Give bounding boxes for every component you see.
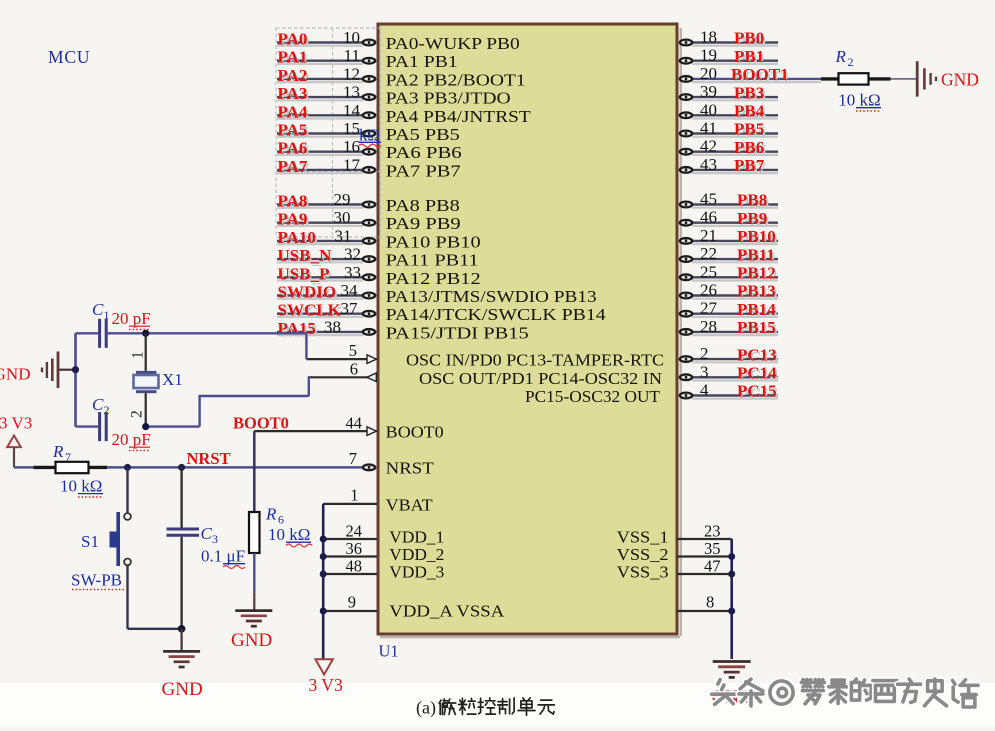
svg-text:22: 22 [700, 244, 717, 263]
svg-text:PB10: PB10 [737, 227, 776, 246]
pin 35 VSS_2 [677, 539, 732, 558]
pin 23 VSS_1 [677, 522, 732, 541]
pin 43 net PB7 (right) [679, 155, 778, 178]
wire C1 right lead to junction [106, 332, 146, 334]
wire BOOT0 net vertical [253, 431, 256, 512]
label C1 [92, 300, 110, 322]
ground symbol GND left of crystal [42, 352, 74, 389]
svg-text:17: 17 [343, 155, 361, 174]
svg-text:VBAT: VBAT [386, 496, 433, 515]
pin 8 VSSA [677, 593, 732, 612]
pin 32 net USB_N (left) [277, 245, 376, 268]
wire: left vertical connecting C1/C2 with GND tap [74, 333, 77, 426]
svg-text:38: 38 [324, 317, 341, 336]
junction node OSC_IN (C1/X1/pin5) [142, 330, 149, 337]
svg-text:VSS_1: VSS_1 [617, 528, 669, 547]
svg-text:2: 2 [129, 410, 146, 418]
svg-text:PA13/JTMS/SWDIO PB13: PA13/JTMS/SWDIO PB13 [386, 287, 597, 306]
VSS bus vertical wire to ground [728, 539, 735, 659]
pin 16 net PA6 (left) [277, 137, 376, 160]
label R6 [265, 505, 284, 527]
svg-text:12: 12 [343, 64, 360, 83]
pin 27 net PB14 (right) [679, 299, 778, 322]
stray value label kO near pin 16 [359, 126, 381, 148]
svg-text:PB11: PB11 [737, 245, 775, 264]
pin 22 net PB11 (right) [679, 244, 778, 267]
selection marquee dashed box [276, 28, 381, 237]
svg-text:PA2 PB2/BOOT1: PA2 PB2/BOOT1 [386, 70, 526, 89]
svg-text:2: 2 [700, 344, 709, 363]
resistor R2 [821, 73, 891, 84]
svg-text:14: 14 [343, 101, 361, 120]
watermark toutiao @ menglu de xifang shihua [712, 680, 737, 705]
pin 26 net PB13 (right) [679, 281, 778, 304]
pin 24 VDD row [320, 522, 377, 543]
pin 28 net PB15 (right) [679, 317, 778, 340]
svg-text:NRST: NRST [386, 459, 434, 478]
crystal X1 [134, 333, 159, 426]
svg-text:PA2: PA2 [278, 66, 308, 85]
svg-text:C: C [201, 524, 213, 543]
pin 21 net PB10 (right) [679, 226, 778, 249]
svg-text:PA6 PB6: PA6 PB6 [386, 143, 462, 162]
wire junction to ground [180, 629, 182, 651]
svg-text:PA5 PB5: PA5 PB5 [386, 125, 460, 144]
resistor R7 [34, 462, 108, 473]
svg-text:VDD_1: VDD_1 [389, 528, 444, 547]
svg-text:PB3: PB3 [734, 83, 764, 102]
svg-text:0.1 μF: 0.1 μF [201, 547, 245, 566]
svg-text:44: 44 [346, 414, 363, 433]
wire OSC_OUT net: pin 6 to C2/X1 junction [145, 376, 309, 426]
svg-text:PA7 PB7: PA7 PB7 [386, 161, 461, 180]
svg-text:C: C [92, 395, 104, 414]
svg-text:PB1: PB1 [734, 47, 764, 66]
svg-text:PA4 PB4/JNTRST: PA4 PB4/JNTRST [386, 107, 531, 126]
svg-text:GND: GND [231, 630, 272, 651]
wire C2 left lead [76, 425, 99, 427]
svg-text:26: 26 [700, 281, 717, 300]
pin 3 net PC14 (right) [679, 362, 779, 385]
svg-text:VSS_3: VSS_3 [617, 563, 669, 582]
ground symbol GND below VSS bus [713, 662, 751, 678]
svg-text:20: 20 [700, 64, 717, 83]
svg-text:PA9 PB9: PA9 PB9 [386, 214, 461, 233]
svg-text:41: 41 [700, 119, 717, 138]
svg-text:SWDIO: SWDIO [278, 283, 337, 302]
svg-text:39: 39 [700, 82, 717, 101]
svg-text:PA9: PA9 [278, 210, 308, 229]
svg-text:BOOT0: BOOT0 [386, 423, 444, 442]
value 10 kO (R2) [838, 91, 881, 112]
svg-text:4: 4 [700, 381, 709, 400]
junction NRST/C3 [178, 464, 185, 471]
resistor R6 [249, 512, 260, 593]
svg-text:20 pF: 20 pF [112, 430, 151, 449]
pin 44 BOOT0 with input arrow [254, 414, 376, 436]
svg-text:30: 30 [334, 208, 351, 227]
svg-text:PA10: PA10 [278, 228, 316, 247]
svg-text:U1: U1 [379, 642, 399, 661]
svg-text:19: 19 [700, 46, 717, 65]
svg-text:PB7: PB7 [734, 156, 765, 175]
pin 5 OSC_IN with input arrow [306, 341, 376, 363]
label R7 [52, 442, 71, 464]
svg-text:S1: S1 [81, 532, 99, 551]
svg-text:VDD_2: VDD_2 [389, 545, 444, 564]
pin 19 net PB1 (right) [679, 46, 778, 69]
svg-text:PA11 PB11: PA11 PB11 [386, 251, 479, 270]
svg-text:PA7: PA7 [278, 157, 308, 176]
svg-text:SW-PB: SW-PB [71, 570, 122, 589]
label C2 [92, 395, 110, 417]
svg-text:3 V3: 3 V3 [309, 675, 343, 695]
svg-text:PA15/JTDI PB15: PA15/JTDI PB15 [386, 323, 529, 342]
capacitor C1 [100, 319, 107, 348]
svg-text:3: 3 [212, 532, 218, 546]
svg-text:NRST: NRST [187, 449, 231, 468]
svg-text:PC15-OSC32 OUT: PC15-OSC32 OUT [525, 387, 660, 406]
ground symbol GND (R6) [235, 611, 272, 627]
pin 9 VDD row [320, 593, 377, 615]
svg-text:37: 37 [341, 299, 359, 318]
svg-text:X1: X1 [162, 370, 183, 389]
svg-text:OSC OUT/PD1 PC14-OSC32 IN: OSC OUT/PD1 PC14-OSC32 IN [419, 369, 662, 388]
svg-text:PB8: PB8 [737, 191, 767, 210]
pin 38 net PA15 (left) [277, 317, 376, 340]
svg-text:OSC IN/PD0 PC13-TAMPER-RTC: OSC IN/PD0 PC13-TAMPER-RTC [406, 351, 664, 370]
svg-text:PA3: PA3 [278, 84, 308, 103]
capacitor C2 [100, 412, 107, 441]
svg-text:45: 45 [700, 190, 717, 209]
svg-text:VSS_2: VSS_2 [617, 545, 669, 564]
svg-text:9: 9 [348, 593, 356, 612]
svg-text:35: 35 [704, 539, 721, 558]
pin 1 VBAT [323, 486, 377, 505]
svg-text:1: 1 [130, 351, 147, 359]
svg-text:PC13: PC13 [737, 345, 777, 364]
svg-text:BOOT0: BOOT0 [233, 414, 289, 433]
svg-text:PA0-WUKP PB0: PA0-WUKP PB0 [386, 34, 520, 53]
svg-text:PB5: PB5 [734, 120, 764, 139]
svg-text:32: 32 [344, 245, 361, 264]
svg-text:42: 42 [700, 137, 717, 156]
power symbol 3V3 bottom (triangle down) [309, 659, 343, 695]
svg-text:2: 2 [848, 55, 854, 69]
pin 20 net BOOT1 (right) [679, 64, 821, 87]
svg-text:8: 8 [706, 593, 714, 612]
svg-text:PA14/JTCK/SWCLK PB14: PA14/JTCK/SWCLK PB14 [386, 305, 606, 324]
svg-text:VDD_3: VDD_3 [389, 563, 444, 582]
pin 40 net PB4 (right) [679, 100, 778, 123]
wire C1 left lead [76, 332, 99, 334]
svg-text:GND: GND [941, 70, 979, 90]
pin 42 net PB6 (right) [679, 137, 778, 160]
svg-text:PA3 PB3/JTDO: PA3 PB3/JTDO [386, 89, 511, 108]
pin 15 net PA5 (left) [277, 119, 376, 142]
junction GND/C1/C2 [72, 366, 79, 373]
svg-text:15: 15 [343, 119, 360, 138]
svg-text:7: 7 [65, 450, 71, 464]
VDD bus vertical wire (3V3) [322, 504, 325, 660]
ground symbol GND (S1/C3) [163, 651, 200, 667]
svg-text:11: 11 [344, 46, 360, 65]
svg-text:20 pF: 20 pF [112, 309, 151, 328]
junction S1/C3/GND [178, 625, 186, 633]
junction NRST/S1 [124, 464, 131, 471]
svg-text:PA1 PB1: PA1 PB1 [386, 52, 458, 71]
wire S1 bottom to junction [128, 628, 182, 630]
svg-text:16: 16 [343, 137, 360, 156]
type SW-PB [71, 570, 124, 589]
pin 47 VSS_3 [677, 557, 732, 576]
pin 45 net PB8 (right) [679, 190, 778, 213]
switch S1 (SW-PB) [110, 467, 131, 628]
svg-text:R: R [835, 47, 847, 66]
value 20 pF (C2) [112, 430, 151, 451]
pin 7 NRST [349, 449, 377, 471]
svg-text:GND: GND [0, 365, 31, 384]
svg-text:PB4: PB4 [734, 102, 765, 121]
pin 33 net USB_P (left) [277, 263, 376, 286]
svg-text:10 kΩ: 10 kΩ [60, 477, 102, 496]
pin 41 net PB5 (right) [679, 119, 778, 142]
svg-text:PA5: PA5 [278, 121, 308, 140]
svg-text:PC14: PC14 [737, 364, 777, 383]
junction node OSC_OUT (C2/X1/pin6) [142, 423, 149, 430]
pin 37 net SWCLK (left) [277, 299, 376, 322]
value 0.1 uF (C3) [201, 547, 245, 569]
wire NRST net [14, 466, 362, 469]
svg-text:2: 2 [104, 403, 110, 417]
pin 34 net SWDIO (left) [277, 281, 376, 304]
pin 6 OSC_OUT with output arrow [309, 360, 377, 382]
pin 2 net PC13 (right) [679, 344, 779, 367]
pin 31 net PA10 (left) [277, 226, 376, 249]
pin 29 net PA8 (left) [277, 190, 376, 213]
svg-text:USB_N: USB_N [278, 246, 333, 265]
svg-text:PA4: PA4 [278, 102, 308, 121]
svg-text:1: 1 [104, 308, 110, 322]
pin 13 net PA3 (left) [277, 83, 376, 106]
svg-text:10 kΩ: 10 kΩ [838, 91, 880, 110]
svg-text:PB12: PB12 [737, 264, 776, 283]
svg-text:PB13: PB13 [737, 282, 776, 301]
svg-text:(a): (a) [416, 698, 436, 719]
svg-text:3 V3: 3 V3 [0, 414, 32, 433]
svg-text:PA0: PA0 [278, 30, 308, 49]
svg-text:47: 47 [704, 557, 721, 576]
value 10 kO (R6) [268, 525, 312, 547]
svg-text:PC15: PC15 [737, 382, 777, 401]
svg-text:PB6: PB6 [734, 138, 764, 157]
svg-text:PB9: PB9 [737, 209, 767, 228]
svg-text:PB0: PB0 [734, 29, 764, 48]
pin 48 VDD row [320, 557, 377, 578]
svg-text:31: 31 [335, 226, 352, 245]
svg-text:23: 23 [704, 522, 721, 541]
svg-text:29: 29 [334, 190, 351, 209]
svg-text:25: 25 [700, 262, 717, 281]
svg-text:28: 28 [700, 317, 717, 336]
svg-text:1: 1 [350, 486, 358, 505]
pin 10 net PA0 (left) [277, 28, 376, 51]
svg-text:PA6: PA6 [278, 139, 308, 158]
label C3 [201, 524, 219, 546]
svg-text:BOOT1: BOOT1 [731, 65, 789, 84]
svg-text:7: 7 [349, 449, 357, 468]
svg-text:MCU: MCU [48, 47, 90, 67]
value 10 kO (R7) [60, 477, 103, 498]
svg-text:R: R [265, 505, 277, 524]
wire OSC_IN net: C1/X1 junction to pin 5 [146, 332, 307, 359]
pin 18 net PB0 (right) [679, 28, 778, 51]
wire R2 to GND [891, 78, 918, 80]
svg-text:10: 10 [343, 28, 360, 47]
power symbol 3V3 left (triangle up) [7, 436, 21, 468]
svg-text:VDD_A VSSA: VDD_A VSSA [389, 602, 504, 621]
svg-text:USB_P: USB_P [278, 264, 330, 283]
svg-text:33: 33 [344, 263, 361, 282]
svg-text:40: 40 [700, 100, 717, 119]
svg-text:43: 43 [700, 155, 717, 174]
pin 36 VDD row [320, 539, 377, 560]
svg-text:13: 13 [343, 83, 360, 102]
pin 25 net PB12 (right) [679, 262, 778, 285]
svg-text:PB15: PB15 [737, 318, 776, 337]
svg-text:PA8: PA8 [278, 192, 308, 211]
svg-text:10 kΩ: 10 kΩ [268, 525, 310, 544]
svg-text:6: 6 [350, 360, 358, 379]
svg-text:36: 36 [346, 539, 363, 558]
svg-text:R: R [52, 442, 64, 461]
pin 12 net PA2 (left) [277, 64, 376, 87]
svg-text:18: 18 [700, 28, 717, 47]
pin 46 net PB9 (right) [679, 208, 778, 231]
ground symbol GND (R2, rotated) [917, 61, 936, 96]
svg-text:PA8 PB8: PA8 PB8 [386, 196, 460, 215]
pin 17 net PA7 (left) [277, 155, 376, 178]
svg-text:5: 5 [349, 341, 357, 360]
svg-text:PB14: PB14 [737, 300, 776, 319]
svg-text:24: 24 [346, 522, 363, 541]
pin 39 net PB3 (right) [679, 82, 778, 105]
svg-text:3: 3 [700, 362, 709, 381]
svg-text:PA15: PA15 [278, 319, 316, 338]
IC U1 MCU body [378, 24, 677, 634]
pin 14 net PA4 (left) [277, 101, 376, 124]
capacitor C3 [167, 467, 200, 628]
svg-text:27: 27 [700, 299, 718, 318]
svg-text:PA12 PB12: PA12 PB12 [386, 269, 481, 288]
pin 30 net PA9 (left) [277, 208, 376, 231]
svg-text:48: 48 [346, 557, 363, 576]
pin 11 net PA1 (left) [277, 46, 376, 69]
svg-text:46: 46 [700, 208, 717, 227]
value 20 pF (C1) [112, 309, 151, 330]
svg-text:PA10 PB10: PA10 PB10 [386, 232, 481, 251]
pin 4 net PC15 (right) [679, 381, 779, 404]
svg-text:PA1: PA1 [278, 48, 308, 67]
label R2 [835, 47, 854, 69]
svg-text:GND: GND [162, 679, 203, 700]
svg-text:C: C [92, 300, 104, 319]
svg-text:34: 34 [341, 281, 359, 300]
svg-text:21: 21 [700, 226, 717, 245]
wire R6 to ground [253, 593, 255, 610]
